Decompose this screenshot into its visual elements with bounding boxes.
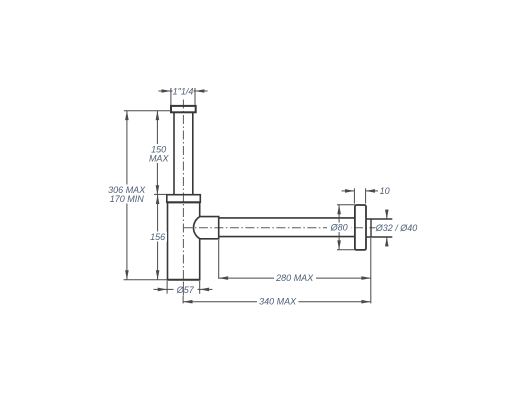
svg-text:170 MIN: 170 MIN (110, 194, 145, 204)
centerline vertical (182, 100, 184, 296)
dimension O32 / O40 (386, 210, 388, 247)
dimension extension bottom-left (124, 279, 168, 281)
horizontal pipe (219, 218, 355, 237)
dimension 150 MAX (124, 111, 171, 195)
centerline horizontal (183, 227, 375, 229)
inlet nut flange (171, 106, 196, 112)
inlet pipe (174, 112, 193, 194)
svg-text:10: 10 (380, 186, 390, 196)
svg-text:340 MAX: 340 MAX (259, 296, 297, 306)
svg-text:Ø32 / Ø40: Ø32 / Ø40 (375, 223, 418, 233)
dimension 280 MAX (219, 240, 371, 279)
svg-text:MAX: MAX (149, 154, 170, 164)
dimension 306 MAX 170 MIN (126, 111, 128, 280)
centerline segment through O57 (182, 282, 184, 296)
dimension O57 (154, 281, 213, 294)
elbow nut (193, 217, 218, 239)
dimension 1"1/4 (158, 88, 207, 105)
body cap (167, 195, 201, 203)
svg-text:Ø80: Ø80 (330, 223, 348, 233)
dimension 10 (342, 188, 379, 203)
svg-text:1"1/4: 1"1/4 (173, 86, 194, 96)
dimension 156 (157, 195, 159, 280)
outlet stub (366, 219, 392, 237)
svg-text:156: 156 (150, 232, 165, 242)
dimension O80 (337, 205, 355, 250)
svg-text:280 MAX: 280 MAX (275, 273, 314, 283)
trap body (167, 203, 201, 280)
wall flange (355, 205, 366, 250)
svg-text:Ø57: Ø57 (176, 285, 195, 295)
dimension 340 MAX (183, 238, 371, 303)
